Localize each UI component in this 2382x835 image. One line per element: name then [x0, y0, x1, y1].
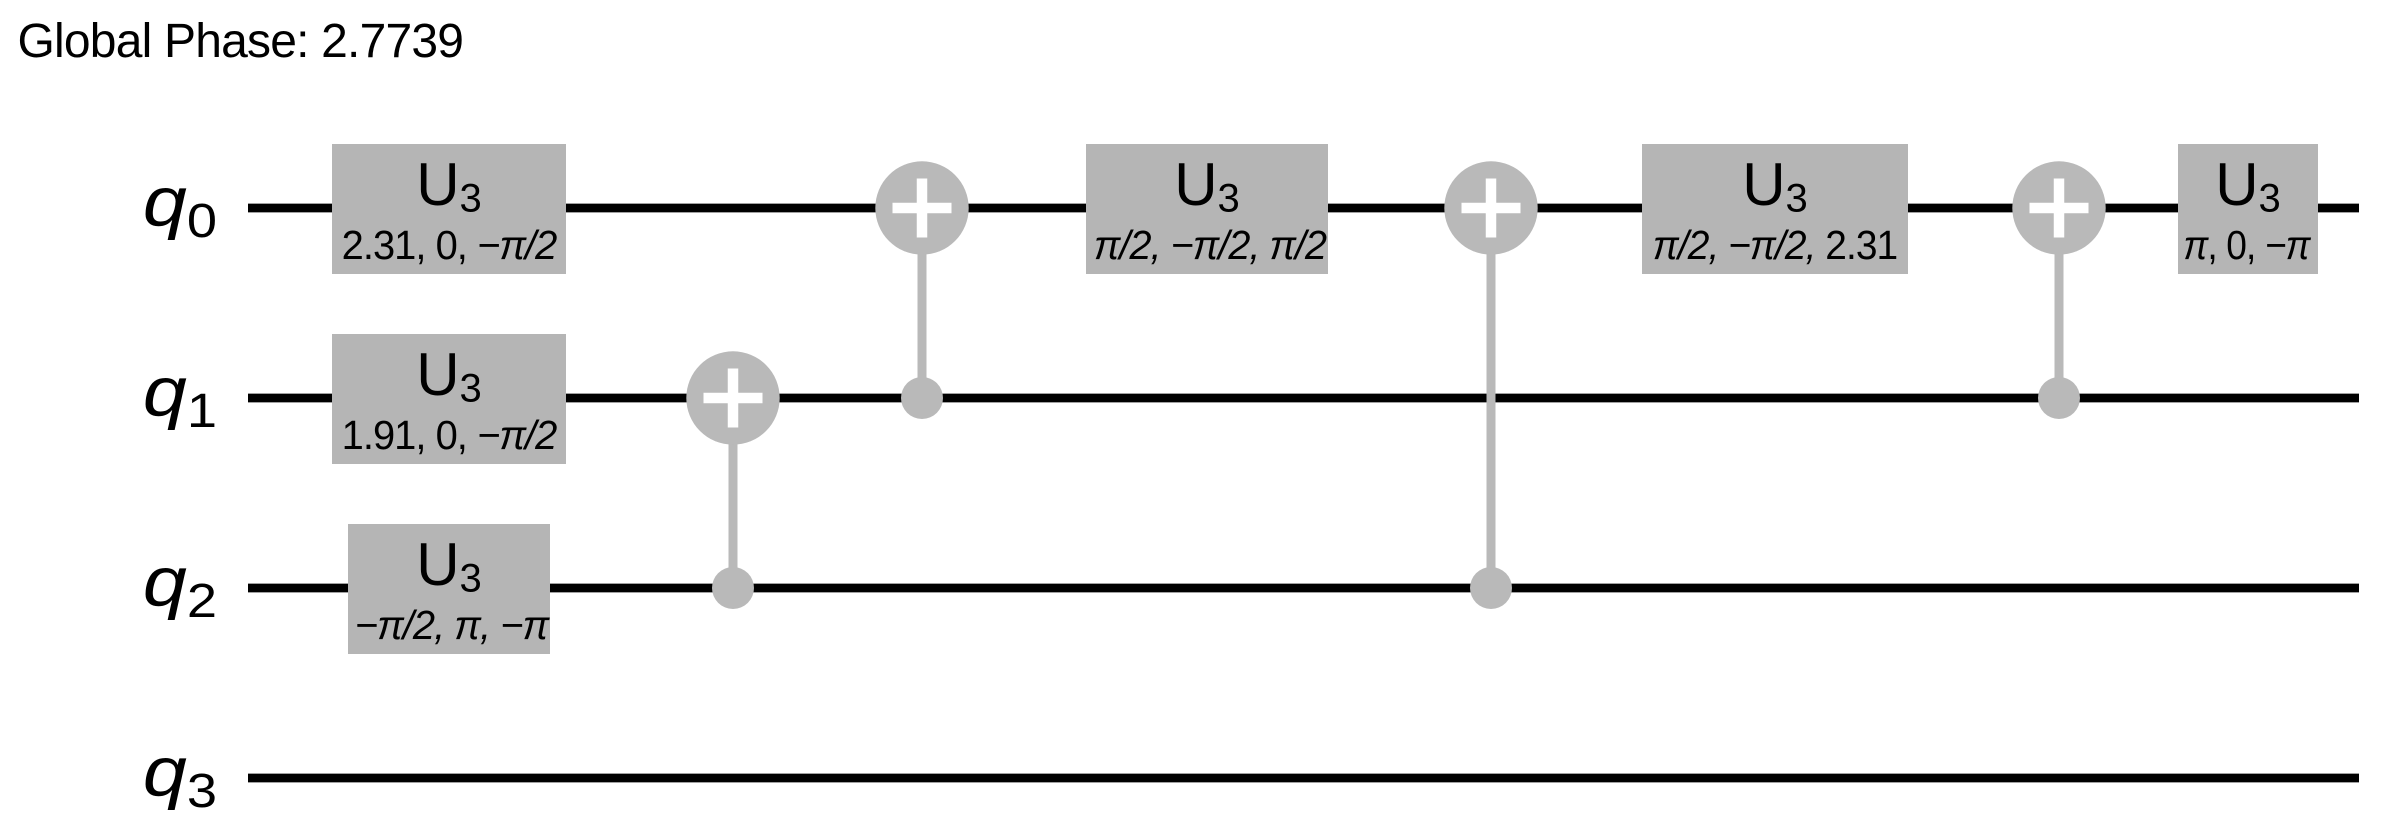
cnot CX4 control dot q1 [2038, 377, 2080, 419]
gate U3 box B1 q0 [332, 144, 566, 274]
wire q2 [248, 584, 2359, 593]
cnot CX2 connector q1->q0 [918, 208, 927, 398]
cnot CX1 control dot q2 [712, 567, 754, 609]
gate U3 box B8 params [2183, 223, 2311, 268]
gate U3 box B6 params [1653, 223, 1897, 268]
wire q3 [248, 774, 2359, 783]
cnot CX2 plus [893, 179, 952, 238]
gate U3 box B2 q1 [332, 334, 566, 464]
cnot CX1 plus [704, 369, 763, 428]
qubit label q0 [143, 162, 217, 248]
wire q1 [248, 394, 2359, 403]
svg-text:−π/2, π, −π: −π/2, π, −π [355, 601, 550, 648]
cnot CX2 control dot q1 [901, 377, 943, 419]
cnot CX4 plus [2030, 179, 2089, 238]
cnot CX4 connector q1->q0 [2055, 208, 2064, 398]
svg-text:π/2, −π/2, 2.31: π/2, −π/2, 2.31 [1653, 223, 1897, 268]
gate U3 box B3 q2 [348, 524, 550, 654]
gate U3 box B8 q0 [2178, 144, 2318, 274]
cnot CX3 connector q2->q0 [1487, 208, 1496, 588]
cnot CX1 connector q2->q1 [729, 398, 738, 588]
qubit label q3 [143, 732, 217, 818]
cnot CX3 target q0 [1444, 161, 1537, 254]
gate U3 box B2 params [342, 411, 557, 458]
qubit label q2 [143, 542, 217, 628]
svg-text:π/2, −π/2, π/2: π/2, −π/2, π/2 [1094, 222, 1327, 268]
cnot CX3 plus [1462, 179, 1521, 238]
svg-text:1.91, 0, −π/2: 1.91, 0, −π/2 [342, 411, 557, 458]
cnot CX2 target q0 [875, 161, 968, 254]
svg-text:π, 0, −π: π, 0, −π [2183, 223, 2311, 268]
svg-text:Global Phase: 2.7739: Global Phase: 2.7739 [18, 15, 464, 68]
wire q0 [248, 204, 2359, 213]
gate U3 box B3 params [355, 601, 550, 648]
cnot CX4 target q0 [2012, 161, 2105, 254]
svg-text:2.31, 0, −π/2: 2.31, 0, −π/2 [342, 221, 557, 268]
qubit label q1 [143, 352, 217, 438]
gate U3 box B1 params [342, 221, 557, 268]
gate U3 box B6 q0 [1642, 144, 1908, 274]
gate U3 box B4 q0 [1086, 144, 1328, 274]
gate U3 box B4 params [1094, 222, 1327, 268]
cnot CX3 control dot q2 [1470, 567, 1512, 609]
cnot CX1 target q1 [686, 351, 779, 444]
